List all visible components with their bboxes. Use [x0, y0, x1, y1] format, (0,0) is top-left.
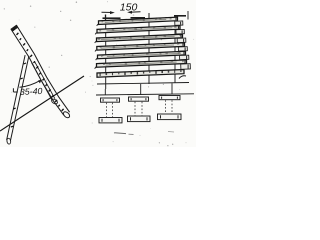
plank row 3 [95, 34, 183, 43]
dimension 150 [102, 2, 189, 21]
plank row 1 [97, 17, 178, 26]
right end spacer block 6 [181, 64, 191, 70]
right end spacer block 2 [176, 29, 184, 33]
faint ground marks [115, 132, 127, 135]
support 2 [128, 97, 151, 122]
trestle front leg [7, 55, 29, 144]
thin line under bearer [97, 83, 189, 85]
right end spacer block 4 [178, 47, 187, 51]
support 1 [99, 98, 122, 123]
svg-text:35-40: 35-40 [20, 86, 43, 97]
plank row 6 [95, 60, 187, 69]
ground line [0, 76, 84, 131]
right end spacer block 3 [177, 38, 186, 42]
top spacers [103, 17, 121, 19]
angle arc [20, 80, 41, 87]
center ticks [104, 89, 106, 95]
trestle rear leg [32, 61, 59, 105]
leaning plank [11, 25, 71, 119]
vertical stake lines [105, 15, 107, 90]
bearer beam [97, 70, 184, 78]
plank row 5 [96, 51, 186, 60]
arc left tick [13, 88, 17, 92]
thin line over supports [96, 94, 194, 95]
right end spacer block 1 [175, 21, 183, 25]
plank row 2 [95, 26, 180, 35]
right end spacer block 5 [180, 55, 189, 60]
plank row 4 [95, 43, 185, 52]
bearer end mark [179, 76, 186, 79]
support 3 [158, 96, 182, 120]
